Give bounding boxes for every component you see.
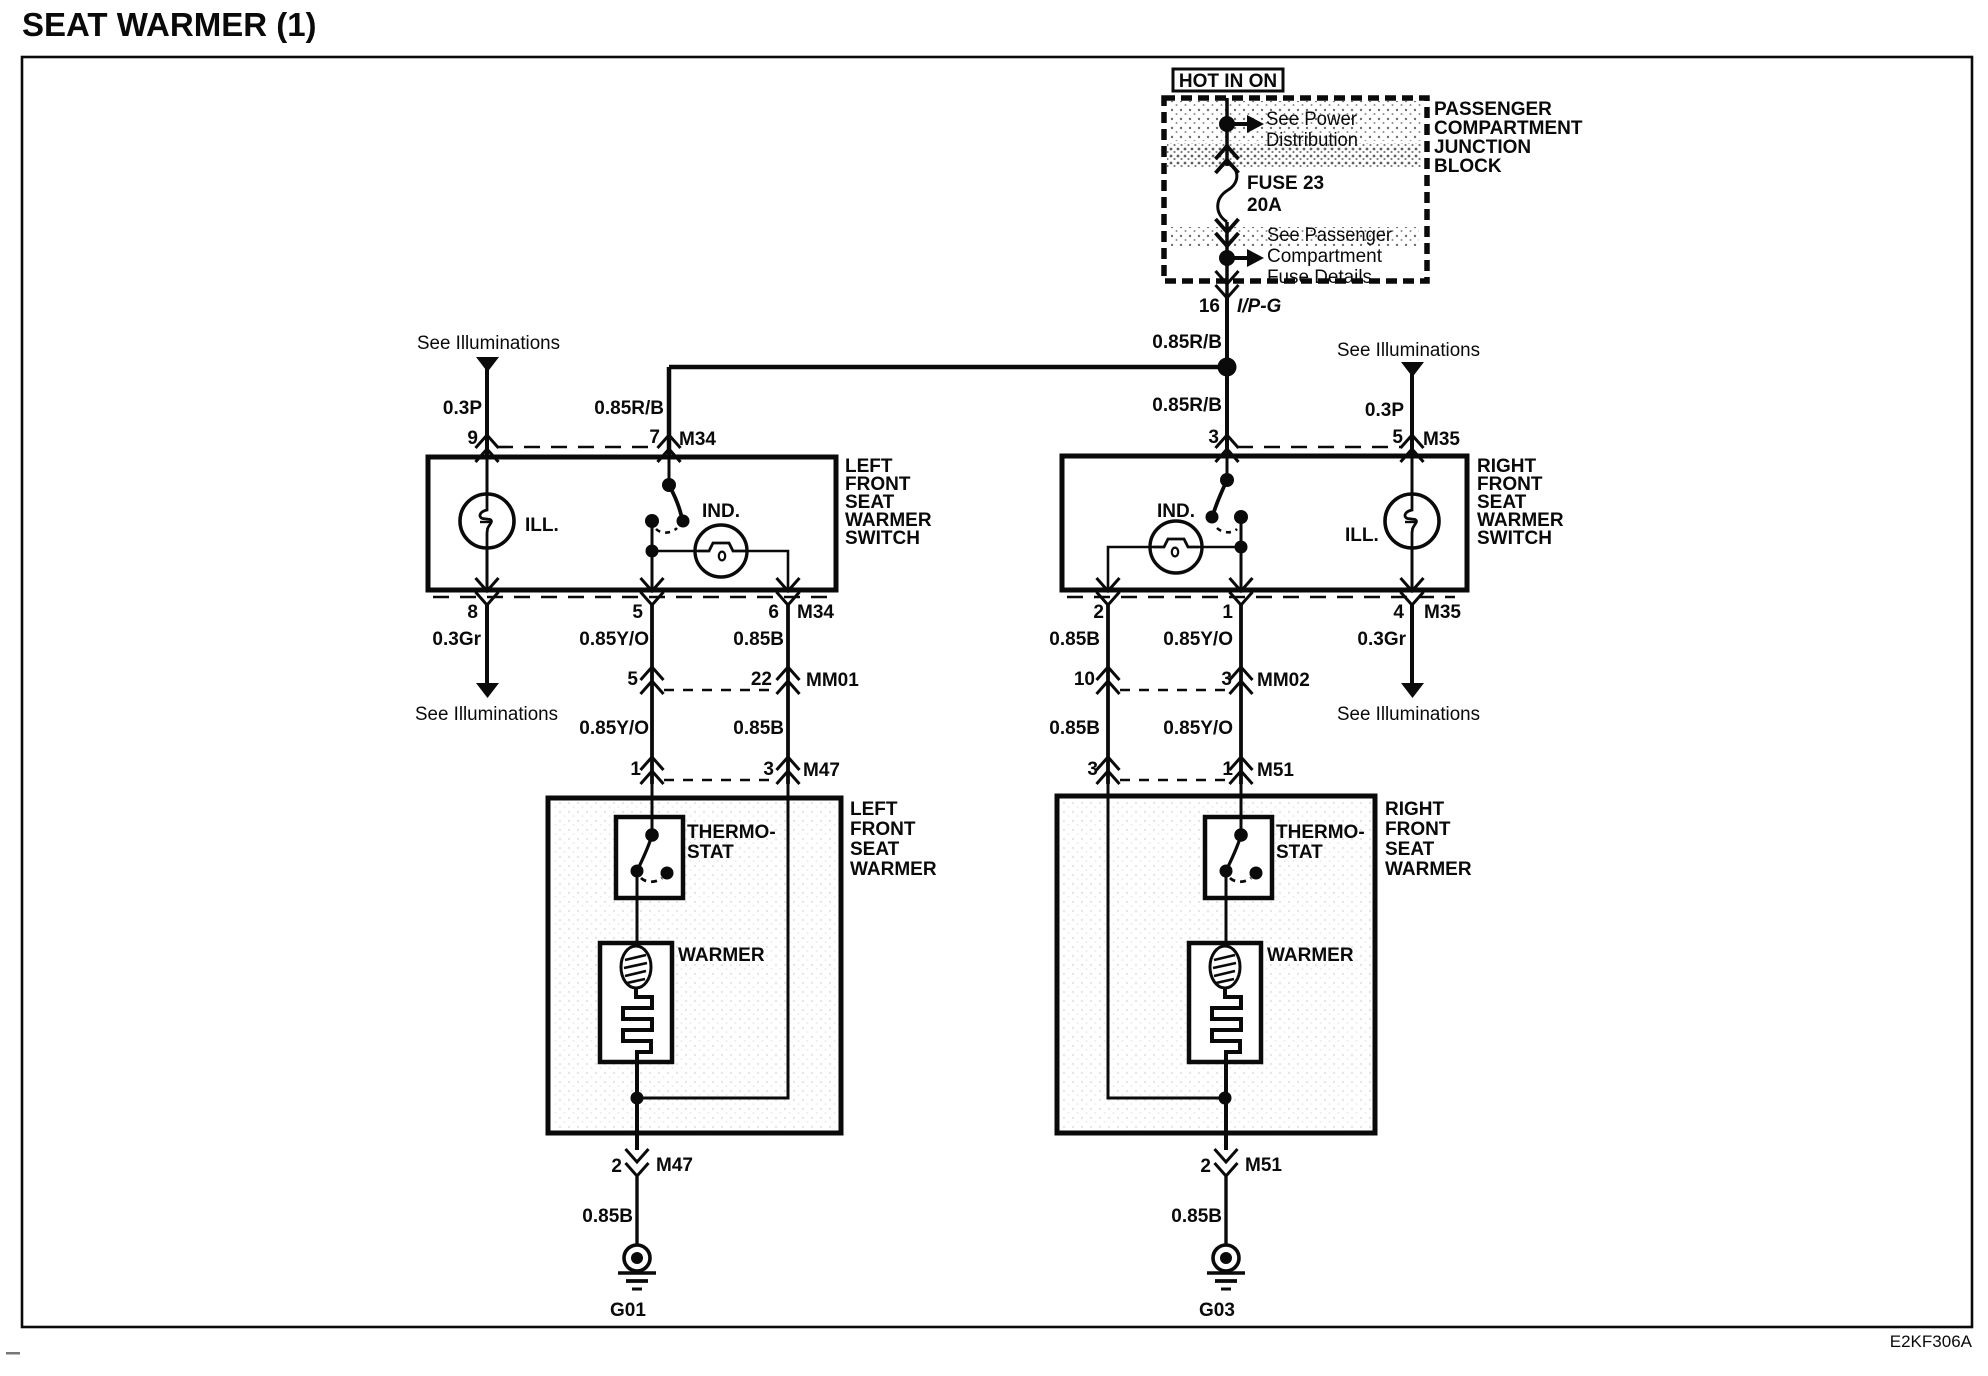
lamp IND (right)	[1150, 521, 1202, 573]
wire: M51-2 to ground G03	[1224, 1176, 1227, 1245]
svg-text:E2KF306A: E2KF306A	[1890, 1332, 1973, 1351]
left front seat warmer switch box	[428, 457, 836, 590]
wire: M34-5 to MM01-5	[650, 605, 654, 694]
wire: M51-1 into thermostat (right)	[1240, 784, 1243, 834]
svg-text:HOT IN ON: HOT IN ON	[1179, 71, 1277, 92]
svg-text:M51: M51	[1245, 1155, 1282, 1176]
svg-text:See Illuminations: See Illuminations	[415, 704, 558, 725]
svg-text:MM02: MM02	[1257, 670, 1310, 691]
label RIGHT FRONT SEAT WARMER SWITCH	[1477, 456, 1564, 549]
svg-text:FRONT: FRONT	[850, 819, 916, 840]
pin 7 chevrons M34	[658, 435, 681, 462]
wire: branch to IND lamp	[652, 550, 698, 553]
HOT IN ON box	[1173, 69, 1283, 92]
switch S1 (left): feed contact	[662, 478, 676, 492]
pin 4 chevrons M35	[1401, 578, 1424, 605]
wire: thermostat feed stub (right)	[1240, 817, 1243, 835]
wire: pin 9 to ILL lamp	[486, 459, 489, 496]
warmer element box (right)	[1189, 943, 1261, 1062]
thermostat contact top (right)	[1234, 828, 1248, 842]
right front seat warmer shading	[1061, 800, 1371, 1129]
svg-text:Compartment: Compartment	[1267, 246, 1383, 267]
lamp IND (left)	[695, 525, 747, 577]
connector pin 16 I/P-G chevrons	[1216, 271, 1239, 298]
thermostat box (left)	[616, 817, 683, 898]
svg-text:0.85R/B: 0.85R/B	[1152, 332, 1222, 353]
wire: switch output down	[651, 524, 654, 591]
pin 1 chevrons M35	[1230, 578, 1253, 605]
node: fuse details tap	[1219, 250, 1235, 266]
wire: pin 8 to illuminations (left)	[485, 605, 489, 684]
left front seat warmer shading	[552, 802, 838, 1129]
arrow to illuminations (bottom right)	[1401, 683, 1424, 698]
svg-text:6: 6	[768, 602, 779, 623]
warmer element box (left)	[600, 943, 672, 1062]
connector M47 pin 1 chevrons	[641, 757, 664, 784]
svg-text:0.85B: 0.85B	[733, 629, 784, 650]
svg-text:RIGHT: RIGHT	[1385, 799, 1445, 820]
label FUSE 23 20A	[1247, 173, 1324, 216]
lamp ILL (left)	[460, 494, 514, 548]
warmer sensor ellipse (right)	[1210, 946, 1240, 988]
label See Passenger Compartment Fuse Details	[1267, 225, 1393, 288]
wire: warmer to ground pin (left)	[635, 1062, 639, 1150]
wire: M47-2 to ground G01	[635, 1176, 638, 1245]
thermostat lever (left)	[638, 835, 652, 869]
svg-text:LEFT: LEFT	[850, 799, 898, 820]
svg-text:5: 5	[632, 602, 643, 623]
svg-text:0.85Y/O: 0.85Y/O	[579, 718, 649, 739]
connector M51 pin 3 chevrons	[1097, 757, 1120, 784]
wire: MM01-5 to M47-1	[650, 694, 654, 784]
wire: M35-1 to MM02-3	[1239, 605, 1243, 694]
svg-text:SEAT WARMER (1): SEAT WARMER (1)	[22, 6, 317, 43]
wire: illumination feed to pin 9	[485, 365, 489, 459]
svg-text:M35: M35	[1424, 602, 1461, 623]
connector M47 pin 2 chevrons	[626, 1149, 649, 1176]
svg-text:WARMER: WARMER	[1267, 945, 1354, 966]
pin 8 chevrons M34	[476, 578, 499, 605]
svg-text:WARMER: WARMER	[850, 859, 937, 880]
svg-text:0.85B: 0.85B	[1049, 629, 1100, 650]
svg-text:20A: 20A	[1247, 195, 1282, 216]
svg-text:0.85R/B: 0.85R/B	[1152, 395, 1222, 416]
dashed connector line M34 top	[497, 446, 659, 449]
wire: ILL lamp to pin 4	[1411, 547, 1414, 591]
svg-text:See Passenger: See Passenger	[1267, 225, 1393, 246]
svg-text:0.85R/B: 0.85R/B	[594, 398, 664, 419]
svg-text:0.85Y/O: 0.85Y/O	[579, 629, 649, 650]
svg-text:0.85B: 0.85B	[582, 1206, 633, 1227]
svg-text:I/P-G: I/P-G	[1237, 296, 1282, 317]
pin 3 chevrons M35	[1216, 435, 1239, 462]
wire: M47-3 return into box (left)	[637, 784, 788, 1098]
connector chevrons below fuse	[1216, 219, 1239, 246]
svg-text:MM01: MM01	[806, 670, 859, 691]
svg-text:5: 5	[627, 669, 638, 690]
node: power distribution tap	[1219, 116, 1235, 132]
svg-text:M51: M51	[1257, 760, 1294, 781]
svg-text:SEAT: SEAT	[1385, 839, 1435, 860]
wire: horizontal main feed to left switch	[669, 365, 1227, 370]
label See Power Distribution	[1266, 109, 1358, 151]
svg-text:2: 2	[1200, 1156, 1211, 1177]
svg-text:FUSE 23: FUSE 23	[1247, 173, 1324, 194]
wire: thermostat to warmer element (left)	[636, 871, 639, 947]
svg-text:WARMER: WARMER	[1385, 859, 1472, 880]
svg-text:0.85Y/O: 0.85Y/O	[1163, 718, 1233, 739]
svg-text:SEAT: SEAT	[850, 839, 900, 860]
shading in junction block	[1167, 101, 1421, 246]
wire: MM01-22 to M47-3	[786, 694, 790, 784]
fuse F23 symbol	[1218, 163, 1237, 222]
passenger compartment junction block (dashed box)	[1164, 98, 1427, 281]
thermostat NC contact (left)	[661, 867, 674, 880]
switch S1 throw arc (dashed)	[656, 528, 677, 533]
svg-text:1: 1	[630, 759, 641, 780]
svg-text:0.85B: 0.85B	[733, 718, 784, 739]
node: IND branch (right)	[1235, 541, 1248, 554]
svg-text:M34: M34	[679, 429, 716, 450]
dashed connector line M35 bottom	[1067, 596, 1455, 599]
svg-text:PASSENGER: PASSENGER	[1434, 99, 1552, 120]
wire: riser to left switch pin 7	[667, 367, 672, 459]
switch S2 lever contact	[1206, 511, 1219, 524]
thermostat box (right)	[1205, 817, 1272, 898]
svg-text:ILL.: ILL.	[525, 515, 559, 536]
label RIGHT FRONT SEAT WARMER	[1385, 799, 1472, 880]
svg-text:2: 2	[1093, 602, 1104, 623]
wire: thermostat to warmer element (right)	[1225, 871, 1228, 947]
svg-text:16: 16	[1199, 296, 1220, 317]
wire: IND lamp to pin 2 (right)	[1108, 547, 1153, 591]
pin 6 chevrons M34	[777, 578, 800, 605]
arrow from illuminations (top left)	[476, 357, 499, 372]
wire: fuse output	[1225, 222, 1229, 258]
svg-text:See Illuminations: See Illuminations	[1337, 340, 1480, 361]
left front seat warmer box	[548, 798, 841, 1133]
thermostat contact top (left)	[645, 828, 659, 842]
svg-text:STAT: STAT	[1276, 842, 1323, 863]
label THERMO-STAT (left)	[687, 822, 776, 863]
right front seat warmer box	[1057, 796, 1375, 1133]
svg-text:IND.: IND.	[1157, 501, 1195, 522]
dashed connector line MM02	[1120, 689, 1229, 692]
svg-text:0.85Y/O: 0.85Y/O	[1163, 629, 1233, 650]
svg-text:G03: G03	[1199, 1300, 1235, 1321]
svg-text:1: 1	[1222, 759, 1233, 780]
svg-text:IND.: IND.	[702, 501, 740, 522]
arrow to illuminations (bottom left)	[476, 683, 499, 698]
svg-text:0.3Gr: 0.3Gr	[432, 629, 481, 650]
pin 2 chevrons M35	[1097, 578, 1120, 605]
svg-text:2: 2	[611, 1156, 622, 1177]
warmer heater meander (left)	[623, 988, 652, 1062]
svg-text:0.85B: 0.85B	[1049, 718, 1100, 739]
wire: ILL lamp to pin 8	[486, 547, 489, 591]
svg-text:JUNCTION: JUNCTION	[1434, 137, 1531, 158]
dashed connector line MM01	[664, 689, 776, 692]
wire: pin 3 stub	[1226, 458, 1229, 477]
ground G03	[1207, 1245, 1245, 1289]
svg-text:See Illuminations: See Illuminations	[417, 333, 560, 354]
warmer sensor ellipse (left)	[621, 946, 651, 988]
wire: illumination feed to pin 5 (right)	[1410, 370, 1414, 458]
arrow to See Power Distribution	[1227, 115, 1264, 133]
wire: IND lamp to pin 6	[745, 551, 788, 591]
node A: feed split	[1218, 358, 1237, 377]
right front seat warmer switch box	[1062, 456, 1467, 590]
wire: M51-3 return into box (right)	[1108, 784, 1225, 1098]
svg-text:STAT: STAT	[687, 842, 734, 863]
svg-text:ILL.: ILL.	[1345, 525, 1379, 546]
wire: M34-6 to MM01-22	[786, 605, 790, 694]
dashed connector line M35 top	[1237, 446, 1402, 449]
svg-text:G01: G01	[610, 1300, 646, 1321]
svg-text:SWITCH: SWITCH	[1477, 528, 1552, 549]
lamp ILL (right)	[1385, 494, 1439, 548]
svg-text:THERMO-: THERMO-	[687, 822, 776, 843]
thermostat output contact (right)	[1220, 865, 1233, 878]
connector M47 pin 3 chevrons	[777, 757, 800, 784]
connector MM02 pin 10 chevrons	[1097, 667, 1120, 694]
switch S2 lever	[1213, 480, 1227, 515]
svg-text:M47: M47	[656, 1155, 693, 1176]
pin 9 chevrons M34	[476, 435, 499, 462]
dashed connector line M47	[664, 779, 776, 782]
arrow from illuminations (top right)	[1401, 362, 1424, 377]
svg-text:WARMER: WARMER	[678, 945, 765, 966]
corner mark	[6, 1352, 20, 1355]
connector M51 pin 1 chevrons	[1230, 757, 1253, 784]
svg-text:3: 3	[763, 759, 774, 780]
svg-text:0.85B: 0.85B	[1171, 1206, 1222, 1227]
thermostat output contact (left)	[631, 865, 644, 878]
wire: branch to IND lamp (right)	[1199, 546, 1241, 549]
svg-text:0.3P: 0.3P	[443, 398, 482, 419]
wire: battery feed inside junction block	[1225, 98, 1229, 166]
connector M51 pin 2 chevrons	[1215, 1149, 1238, 1176]
dashed connector line M51	[1120, 779, 1229, 782]
thermostat NC contact (right)	[1250, 867, 1263, 880]
warmer heater meander (right)	[1212, 988, 1241, 1062]
wire: MM02-3 to M51-1	[1239, 694, 1243, 784]
node: IND branch (left)	[646, 545, 659, 558]
svg-text:M34: M34	[797, 602, 834, 623]
wire: pin 5 to ILL lamp (right)	[1411, 458, 1414, 496]
switch S1 output contact	[645, 514, 659, 528]
svg-text:3: 3	[1087, 759, 1098, 780]
svg-text:0.3P: 0.3P	[1365, 400, 1404, 421]
label LEFT FRONT SEAT WARMER SWITCH	[845, 456, 932, 549]
switch S2 throw arc (dashed)	[1217, 528, 1237, 532]
wire: junction block output	[1225, 258, 1229, 296]
wire: MM02-10 to M51-3	[1106, 694, 1110, 784]
svg-text:M35: M35	[1423, 429, 1460, 450]
svg-text:1: 1	[1222, 602, 1233, 623]
node: return junction (right)	[1219, 1092, 1232, 1105]
wire: thermostat feed stub (left)	[651, 817, 654, 835]
label PASSENGER COMPARTMENT JUNCTION BLOCK	[1434, 99, 1583, 177]
wire: main feed down to distribution node	[1225, 296, 1229, 367]
wire: M35-2 to MM02-10	[1106, 605, 1110, 694]
node: return junction (left)	[631, 1092, 644, 1105]
label LEFT FRONT SEAT WARMER	[850, 799, 937, 880]
arrow to See Passenger Compartment Fuse Details	[1227, 249, 1264, 267]
switch S2 (right): feed contact	[1220, 473, 1234, 487]
switch S2 output contact	[1234, 510, 1248, 524]
thermostat throw arc (left, dashed)	[641, 878, 662, 882]
switch S1 lever contact	[677, 515, 690, 528]
dashed connector line M34 bottom	[433, 596, 831, 599]
svg-text:4: 4	[1393, 602, 1404, 623]
wire: pin 7 stub	[668, 459, 671, 482]
svg-text:FRONT: FRONT	[1385, 819, 1451, 840]
switch S1 lever	[669, 485, 682, 519]
svg-text:COMPARTMENT: COMPARTMENT	[1434, 118, 1583, 139]
svg-text:10: 10	[1074, 669, 1095, 690]
connector MM02 pin 3 chevrons	[1230, 667, 1253, 694]
wire: M47-1 into thermostat (left)	[651, 784, 654, 834]
svg-text:22: 22	[751, 669, 772, 690]
pin 5 chevrons M34	[641, 578, 664, 605]
connector MM01 pin 22 chevrons	[777, 667, 800, 694]
svg-text:M47: M47	[803, 760, 840, 781]
thermostat throw arc (right, dashed)	[1230, 878, 1251, 882]
svg-text:0.3Gr: 0.3Gr	[1357, 629, 1406, 650]
thermostat lever (right)	[1227, 835, 1241, 869]
wire: switch output down (right)	[1240, 520, 1243, 591]
svg-text:SWITCH: SWITCH	[845, 528, 920, 549]
wire: warmer to ground pin (right)	[1224, 1062, 1228, 1150]
ground G01	[618, 1245, 656, 1289]
label THERMO-STAT (right)	[1276, 822, 1365, 863]
svg-text:See Illuminations: See Illuminations	[1337, 704, 1480, 725]
svg-text:8: 8	[467, 602, 478, 623]
connector MM01 pin 5 chevrons	[641, 667, 664, 694]
connector chevrons above fuse	[1216, 146, 1239, 173]
wire: feed down to right switch pin 3	[1225, 367, 1229, 458]
svg-text:BLOCK: BLOCK	[1434, 156, 1502, 177]
svg-text:THERMO-: THERMO-	[1276, 822, 1365, 843]
wire: pin 4 to illuminations (right)	[1410, 605, 1414, 684]
svg-text:3: 3	[1221, 669, 1232, 690]
pin 5 chevrons M35	[1401, 435, 1424, 462]
svg-text:Fuse Details: Fuse Details	[1267, 267, 1372, 288]
svg-text:See Power: See Power	[1266, 109, 1358, 130]
svg-text:Distribution: Distribution	[1266, 130, 1358, 151]
